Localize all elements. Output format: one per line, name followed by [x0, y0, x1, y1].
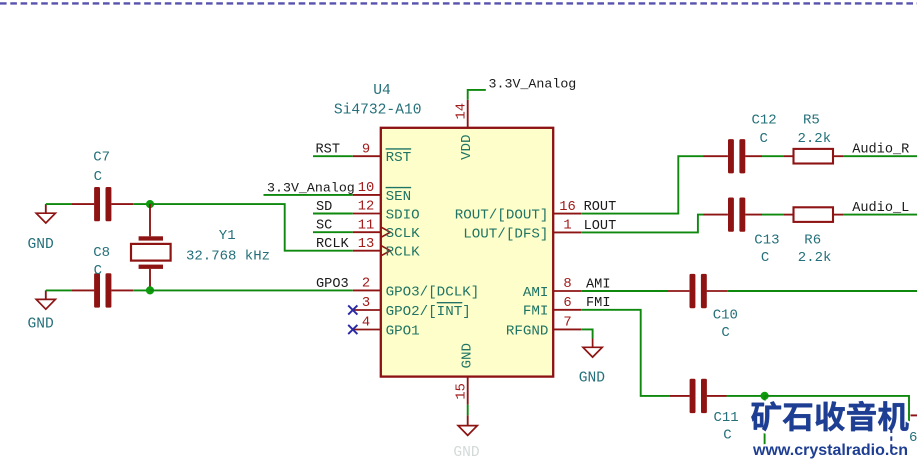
- svg-text:Y1: Y1: [219, 228, 236, 244]
- pin 7 RFGND: [553, 328, 581, 330]
- ground symbol GND (pin 15): [467, 415, 469, 425]
- svg-text:ROUT: ROUT: [584, 200, 617, 215]
- pin 11 SCLK: [353, 231, 381, 233]
- wire SD label: [313, 213, 353, 215]
- pin 6 FMI: [553, 309, 581, 311]
- capacitor C8: [72, 289, 94, 291]
- svg-text:12: 12: [358, 200, 375, 215]
- pin 3 GPO2/[INT]: [353, 309, 381, 311]
- node C junction: [761, 392, 769, 400]
- no-connect X pin 4: [348, 325, 357, 334]
- wire LOUT to C13: [581, 215, 703, 233]
- wire C7 to node A: [133, 203, 150, 205]
- svg-text:SD: SD: [316, 200, 332, 215]
- svg-text:C7: C7: [93, 150, 110, 166]
- svg-text:C: C: [721, 325, 729, 341]
- pin 1 LOUT/[DFS]: [553, 231, 581, 233]
- wire C12 to R5: [762, 155, 784, 157]
- svg-text:6: 6: [909, 430, 917, 446]
- pin stub right edge: [911, 414, 917, 416]
- svg-text:16: 16: [559, 200, 576, 215]
- svg-text:SEN: SEN: [386, 189, 412, 205]
- svg-text:C: C: [723, 428, 731, 444]
- svg-text:GPO3: GPO3: [316, 277, 349, 292]
- pin 13 RCLK: [353, 250, 381, 252]
- wire R6 to Audio_L: [843, 214, 917, 216]
- capacitor C13: [704, 214, 728, 216]
- ground symbol GND (C7 left): [45, 204, 47, 213]
- svg-text:www.crystalradio.cn: www.crystalradio.cn: [752, 442, 908, 459]
- svg-text:9: 9: [362, 142, 370, 157]
- IC U4 Si4732-A10 body: [381, 128, 553, 377]
- svg-text:Audio_L: Audio_L: [852, 201, 909, 216]
- svg-text:AMI: AMI: [523, 285, 549, 301]
- crystal Y1: [149, 204, 151, 236]
- watermark logo: [751, 401, 781, 431]
- svg-text:GPO1: GPO1: [386, 323, 420, 339]
- wire C8 to node B: [133, 289, 150, 291]
- svg-text:RST: RST: [316, 143, 340, 158]
- pin 2 GPO3/[DCLK]: [353, 289, 381, 291]
- svg-text:RST: RST: [386, 150, 412, 166]
- svg-text:GND: GND: [28, 237, 55, 253]
- svg-text:Si4732-A10: Si4732-A10: [334, 102, 422, 118]
- pin 9 RST: [353, 155, 381, 157]
- wire SC label: [313, 231, 353, 233]
- svg-text:C: C: [94, 169, 102, 185]
- svg-text:32.768 kHz: 32.768 kHz: [186, 249, 270, 265]
- wire node C down branch: [764, 396, 766, 448]
- svg-text:2: 2: [362, 277, 370, 292]
- capacitor C12: [704, 155, 728, 157]
- ground symbol GND (RFGND): [583, 347, 602, 357]
- svg-text:3: 3: [362, 296, 370, 311]
- svg-text:11: 11: [358, 218, 375, 233]
- svg-text:C11: C11: [714, 410, 739, 426]
- svg-text:GND: GND: [460, 343, 476, 369]
- svg-text:6: 6: [563, 296, 571, 311]
- svg-text:Audio_R: Audio_R: [852, 143, 909, 158]
- svg-text:14: 14: [455, 103, 470, 120]
- svg-text:C: C: [760, 131, 768, 147]
- wire C11 to node C: [727, 395, 765, 397]
- svg-text:FMI: FMI: [586, 296, 610, 311]
- svg-text:3.3V_Analog: 3.3V_Analog: [267, 180, 355, 195]
- pin 16 ROUT/[DOUT]: [553, 213, 581, 215]
- wire C10 to right edge: [727, 290, 917, 292]
- sheet border dashed line: [0, 2, 917, 4]
- svg-text:2.2k: 2.2k: [798, 250, 832, 266]
- svg-text:FMI: FMI: [523, 304, 549, 320]
- svg-text:RFGND: RFGND: [506, 323, 549, 339]
- svg-text:3.3V_Analog: 3.3V_Analog: [489, 76, 577, 91]
- pin 8 AMI: [553, 290, 581, 292]
- svg-text:1: 1: [563, 219, 571, 234]
- svg-text:4: 4: [362, 316, 370, 331]
- capacitor C10: [668, 290, 690, 292]
- svg-text:RCLK: RCLK: [386, 245, 421, 261]
- svg-text:ROUT/[DOUT]: ROUT/[DOUT]: [455, 208, 549, 224]
- svg-text:8: 8: [563, 277, 571, 292]
- svg-text:C13: C13: [754, 233, 779, 249]
- wire node C to right pin: [765, 396, 909, 423]
- wire node B to GPO3 pin: [150, 289, 353, 291]
- svg-text:R6: R6: [804, 233, 821, 249]
- wire node A to RCLK corner: [150, 204, 353, 251]
- no-connect X pin 3: [348, 305, 357, 314]
- svg-text:AMI: AMI: [586, 277, 610, 292]
- wire GND to C7: [46, 203, 72, 205]
- svg-text:10: 10: [358, 181, 375, 196]
- svg-text:U4: U4: [373, 83, 391, 99]
- pin 12 SDIO: [353, 213, 381, 215]
- svg-text:C: C: [761, 250, 769, 266]
- svg-text:13: 13: [358, 237, 375, 252]
- svg-text:15: 15: [455, 383, 470, 400]
- capacitor C7: [72, 203, 94, 205]
- svg-text:2.2k: 2.2k: [798, 131, 832, 147]
- svg-text:GND: GND: [453, 445, 480, 460]
- svg-text:GND: GND: [28, 317, 55, 333]
- wire ROUT to C12: [581, 156, 703, 213]
- resistor R5: [784, 155, 794, 157]
- svg-text:C8: C8: [93, 245, 110, 261]
- wire RST label: [313, 155, 353, 157]
- dashed mark near watermark: [890, 429, 892, 450]
- svg-text:GPO3/[DCLK]: GPO3/[DCLK]: [386, 284, 480, 300]
- svg-text:GPO2/[INT]: GPO2/[INT]: [386, 304, 471, 320]
- wire FMI to C11: [581, 310, 670, 396]
- pin 10 SEN: [353, 194, 381, 196]
- svg-text:SCLK: SCLK: [386, 226, 421, 242]
- pin 4 GPO1: [353, 329, 381, 331]
- svg-text:C10: C10: [713, 307, 738, 323]
- pin 14 VDD: [467, 100, 469, 128]
- wire VDD to 3.3V_Analog: [468, 90, 486, 100]
- svg-text:R5: R5: [803, 113, 820, 129]
- svg-text:SC: SC: [316, 219, 332, 234]
- svg-text:SDIO: SDIO: [386, 207, 420, 223]
- node B junction: [146, 286, 154, 294]
- node A junction: [146, 200, 154, 208]
- wire AMI to C10: [581, 290, 667, 292]
- svg-text:7: 7: [563, 316, 571, 331]
- wire pin15 to ground: [467, 405, 469, 416]
- svg-text:GND: GND: [579, 371, 606, 387]
- wire R5 to Audio_R: [843, 155, 917, 157]
- capacitor C11: [670, 395, 690, 397]
- wire GND to C8: [46, 289, 72, 291]
- svg-text:LOUT/[DFS]: LOUT/[DFS]: [463, 226, 548, 242]
- wire RFGND to ground: [581, 329, 592, 338]
- resistor R6: [784, 214, 794, 216]
- wire 3.3V_Analog to SEN: [264, 194, 353, 196]
- wire C13 to R6: [762, 214, 784, 216]
- svg-text:VDD: VDD: [459, 134, 475, 160]
- pin 15 GND: [467, 377, 469, 405]
- svg-text:LOUT: LOUT: [584, 219, 617, 234]
- ground symbol GND (C8 left): [45, 290, 47, 299]
- svg-text:RCLK: RCLK: [316, 237, 349, 252]
- svg-text:C12: C12: [752, 113, 777, 129]
- svg-text:C: C: [94, 263, 102, 279]
